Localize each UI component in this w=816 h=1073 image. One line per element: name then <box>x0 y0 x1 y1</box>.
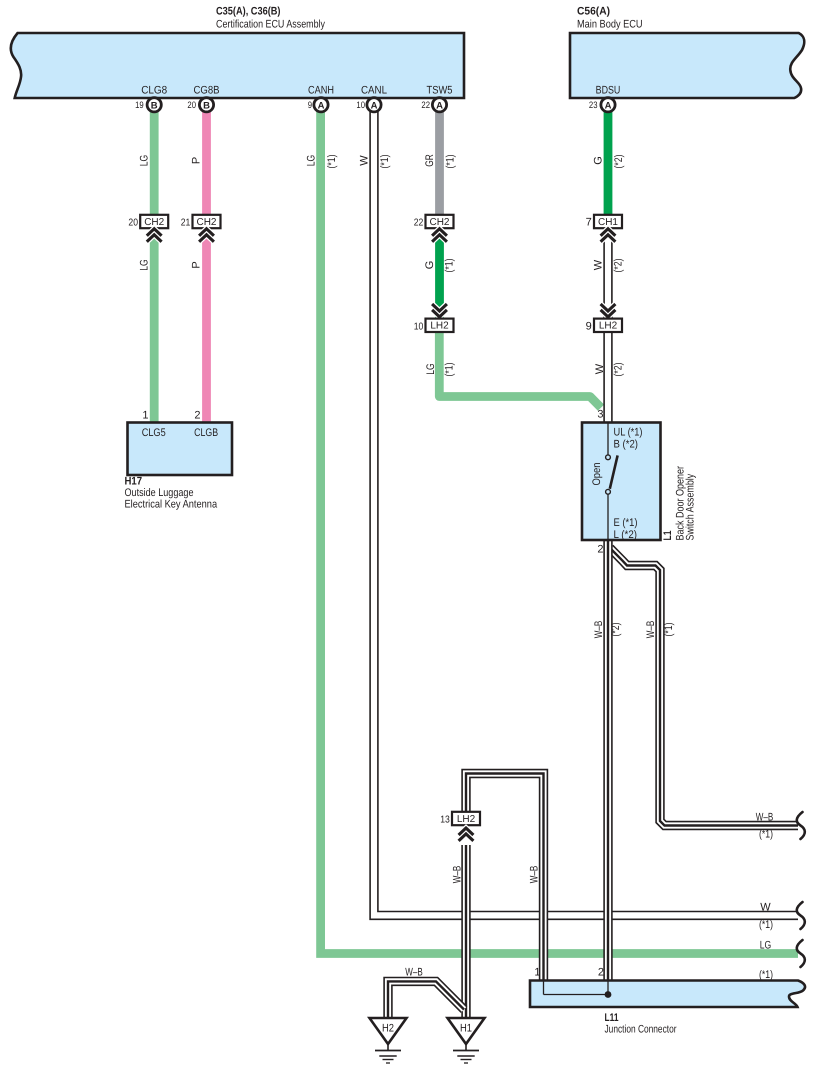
wire W (*2) between LH2-9 and switch pin 3 <box>603 331 612 423</box>
svg-text:(*1): (*1) <box>443 259 455 273</box>
svg-text:Main Body ECU: Main Body ECU <box>577 19 643 31</box>
pin 22 A <box>421 98 446 112</box>
svg-text:(*1): (*1) <box>759 919 773 931</box>
svg-text:W–B: W–B <box>451 866 463 884</box>
wire W (*2) between CH1 and LH2-9 <box>603 227 612 319</box>
svg-text:CG8B: CG8B <box>194 85 220 97</box>
svg-text:1: 1 <box>534 967 540 979</box>
connector CH1 pin 7 <box>586 215 622 229</box>
svg-text:H1: H1 <box>460 1023 472 1035</box>
connector CH2 pin 21 <box>181 215 221 229</box>
connector CH2 pin 22 <box>414 215 454 229</box>
svg-text:W: W <box>358 155 370 166</box>
svg-text:Electrical Key Antenna: Electrical Key Antenna <box>125 499 218 511</box>
svg-text:L11: L11 <box>605 1012 619 1024</box>
svg-text:L1: L1 <box>662 531 674 541</box>
svg-text:GR: GR <box>424 154 436 167</box>
svg-text:(*1): (*1) <box>443 363 455 377</box>
svg-text:G: G <box>424 261 436 270</box>
svg-text:B (*2): B (*2) <box>614 439 639 451</box>
wire W-B from H1 ground up to LH2-13 <box>461 845 470 1019</box>
svg-text:10: 10 <box>414 321 424 332</box>
svg-text:20: 20 <box>128 218 138 229</box>
svg-text:A: A <box>605 101 612 112</box>
wire CANH LG (*1): pin 9A down then right to break <box>321 111 798 954</box>
svg-text:22: 22 <box>421 100 430 110</box>
svg-text:LH2: LH2 <box>457 814 476 825</box>
svg-text:W–B: W–B <box>405 967 423 979</box>
svg-text:LG: LG <box>138 259 150 271</box>
svg-text:(*1): (*1) <box>759 969 773 981</box>
wire G (*1) between CH2 and LH2 <box>435 227 444 319</box>
connector arrows below LH2 pin 13 <box>459 828 474 841</box>
svg-text:W: W <box>760 902 771 914</box>
svg-text:E (*1): E (*1) <box>614 517 638 529</box>
svg-text:2: 2 <box>597 544 603 556</box>
svg-text:(*2): (*2) <box>612 259 624 273</box>
svg-text:L (*2): L (*2) <box>614 529 638 541</box>
connector CH2 pin 20 <box>128 215 168 229</box>
connector arrows below CH1 pin 7 <box>601 229 616 242</box>
wire CANL W (*1): pin 10A down then right to break <box>374 111 798 915</box>
svg-text:CLGB: CLGB <box>194 427 218 439</box>
svg-text:CLG8: CLG8 <box>141 85 167 97</box>
svg-text:LG: LG <box>305 155 317 167</box>
svg-text:22: 22 <box>414 218 424 229</box>
svg-text:9: 9 <box>586 320 592 332</box>
svg-text:B: B <box>151 101 158 112</box>
svg-text:9: 9 <box>308 100 312 110</box>
svg-text:7: 7 <box>586 217 592 229</box>
wire W-B from H2 ground joining H1 wire <box>388 981 464 1019</box>
svg-text:Certification ECU Assembly: Certification ECU Assembly <box>216 19 325 31</box>
svg-text:(*1): (*1) <box>326 155 338 169</box>
svg-text:Switch Assembly: Switch Assembly <box>685 473 697 540</box>
svg-text:W: W <box>592 259 604 270</box>
pin 10 A <box>356 98 381 112</box>
svg-text:UL (*1): UL (*1) <box>614 427 643 439</box>
svg-text:P: P <box>190 261 202 268</box>
svg-text:(*2): (*2) <box>610 623 622 637</box>
wire G (*2) BDSU <box>604 111 613 216</box>
wire GR TSW5 <box>435 111 444 216</box>
svg-text:CLG5: CLG5 <box>142 427 166 439</box>
svg-text:CANL: CANL <box>361 85 387 97</box>
svg-text:H2: H2 <box>382 1023 394 1035</box>
svg-text:TSW5: TSW5 <box>427 85 453 97</box>
svg-text:A: A <box>318 101 325 112</box>
wire W-B (*2) from switch pin 2 to L11 pin 2 <box>603 540 612 981</box>
connector arrows below CH2 pin 22 <box>432 229 447 242</box>
pin 23 A <box>589 98 615 112</box>
svg-text:C35(A), C36(B): C35(A), C36(B) <box>216 6 281 18</box>
svg-text:LG: LG <box>760 940 772 952</box>
svg-text:LH2: LH2 <box>430 321 449 332</box>
svg-text:LG: LG <box>138 155 150 167</box>
svg-text:G: G <box>592 156 604 165</box>
svg-text:W–B: W–B <box>756 812 774 824</box>
svg-text:2: 2 <box>598 967 604 979</box>
svg-text:LG: LG <box>425 363 437 375</box>
svg-text:CANH: CANH <box>308 85 334 97</box>
svg-text:19: 19 <box>135 100 144 110</box>
svg-text:(*2): (*2) <box>613 155 625 169</box>
wire W-B loop from LH2-13 up over to L11 pin 1 <box>466 774 544 982</box>
svg-text:(*1): (*1) <box>759 829 773 841</box>
wire P CG8B lower <box>202 227 211 423</box>
wire LG (*1) from LH2-10 to switch pin 3 <box>439 331 601 408</box>
svg-text:20: 20 <box>187 100 196 110</box>
svg-text:13: 13 <box>440 815 450 826</box>
svg-text:W–B: W–B <box>645 621 657 639</box>
svg-text:1: 1 <box>142 410 148 422</box>
break symbol LG wire <box>797 940 805 967</box>
svg-text:Junction Connector: Junction Connector <box>605 1024 677 1036</box>
svg-text:(*1): (*1) <box>663 623 675 637</box>
svg-text:23: 23 <box>589 100 598 110</box>
svg-text:H17: H17 <box>125 476 143 488</box>
connector LH2 pin 10 with down chevron <box>432 304 447 317</box>
svg-text:3: 3 <box>597 409 603 421</box>
svg-text:BDSU: BDSU <box>596 85 621 97</box>
svg-text:W: W <box>594 363 606 374</box>
svg-text:(*1): (*1) <box>379 155 391 169</box>
svg-text:2: 2 <box>194 410 200 422</box>
break symbol W wire <box>797 902 805 929</box>
connector arrows below CH2 pin 21 <box>199 229 214 242</box>
svg-text:A: A <box>436 101 443 112</box>
svg-text:Open: Open <box>591 463 603 486</box>
ground H1 <box>448 1018 485 1063</box>
svg-text:W–B: W–B <box>593 621 605 639</box>
pin 19 B <box>135 98 161 112</box>
svg-text:C56(A): C56(A) <box>577 6 610 18</box>
svg-text:P: P <box>190 157 202 164</box>
connector arrows below CH2 pin 20 <box>147 229 162 242</box>
wire W-B (*1) branch from pin 2 right and down to break <box>610 548 798 826</box>
svg-text:(*2): (*2) <box>612 363 624 377</box>
svg-text:Outside Luggage: Outside Luggage <box>125 487 194 499</box>
connector LH2 pin 13 <box>440 812 480 826</box>
svg-text:21: 21 <box>181 218 191 229</box>
svg-text:10: 10 <box>356 100 365 110</box>
connector LH2 pin 9 with down chevron <box>601 304 616 317</box>
wire LG CLG8 lower <box>150 227 159 423</box>
svg-text:LH2: LH2 <box>599 321 618 332</box>
ground H2 <box>370 1018 407 1063</box>
wire LG CLG8 upper <box>150 111 159 216</box>
wire P CG8B upper <box>202 111 211 216</box>
svg-text:W–B: W–B <box>528 866 540 884</box>
svg-text:B: B <box>203 101 210 112</box>
pin 20 B <box>187 98 213 112</box>
break symbol W-B wire <box>797 812 805 839</box>
svg-text:A: A <box>371 101 378 112</box>
svg-text:(*1): (*1) <box>444 155 456 169</box>
pin 9 A <box>308 98 328 112</box>
